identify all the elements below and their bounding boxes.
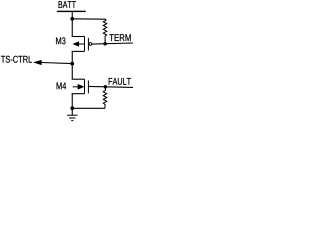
- junction node TS-CTRL tap: [70, 62, 74, 66]
- net label TERM: [109, 34, 130, 41]
- wire FAULT net (M4 gate to right edge): [88, 86, 133, 87]
- M4 body arrow: [73, 86, 79, 88]
- junction node TERM: [103, 42, 107, 46]
- junction node FAULT: [104, 85, 108, 89]
- wire TERM net (M3 gate to right edge): [92, 43, 133, 44]
- wire M4 source to ground: [71, 94, 73, 115]
- net label TS-CTRL: [1, 56, 32, 63]
- M4 channel: [84, 79, 86, 94]
- arrow TS-CTRL (points left): [33, 60, 42, 65]
- M3 gate bar: [87, 38, 89, 51]
- wire BATT junction to resistor R-TERM top: [72, 18, 106, 20]
- M3 channel: [84, 37, 86, 52]
- M3 source stub: [72, 50, 85, 52]
- wire R-FAULT bottom to ground node: [72, 107, 105, 109]
- M3 gate bubble (P-channel): [89, 43, 92, 46]
- net label BATT: [59, 1, 76, 8]
- M3 drain stub: [72, 36, 85, 38]
- ground symbol: [67, 115, 78, 120]
- transistor M4 (NMOS): [72, 79, 89, 94]
- wire BATT bar to M3 drain: [71, 12, 73, 36]
- M4 source stub: [72, 93, 85, 95]
- resistor R-TERM (pull-up to BATT): [103, 19, 106, 44]
- M3 body arrow: [79, 43, 85, 45]
- net label FAULT: [109, 78, 131, 85]
- reference label M4: [57, 82, 67, 89]
- wire TS-CTRL: [41, 63, 72, 64]
- M4 gate bar: [87, 80, 89, 93]
- transistor M3 (PMOS): [72, 37, 92, 52]
- wire M3 source to M4 drain: [71, 51, 73, 79]
- reference label M3: [56, 37, 65, 44]
- power rail bar BATT: [57, 11, 86, 12]
- M4 drain stub: [72, 78, 85, 80]
- junction node ground: [70, 106, 74, 110]
- junction node BATT branch: [70, 17, 74, 21]
- resistor R-FAULT (pull-down to ground): [103, 87, 106, 109]
